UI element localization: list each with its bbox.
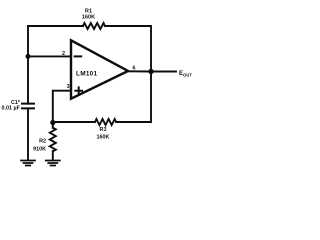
node (output junction) bbox=[148, 69, 153, 74]
wire (output to EOUT) bbox=[151, 71, 176, 73]
svg-text:0.01 µF: 0.01 µF bbox=[2, 106, 21, 112]
svg-text:2: 2 bbox=[62, 51, 65, 57]
wire (to pin 2) bbox=[28, 55, 71, 57]
wire (junction to R3) bbox=[53, 121, 95, 123]
inverting input marker (minus) bbox=[75, 55, 82, 57]
wire (R3 to output rail) bbox=[116, 72, 151, 123]
wire (pin 3 to R2/R3 junction) bbox=[53, 91, 71, 122]
wire (top feedback, left of R1) bbox=[28, 25, 83, 27]
svg-text:R2: R2 bbox=[39, 139, 46, 145]
wire (op-amp output) bbox=[128, 70, 151, 72]
wire (capacitor to ground) bbox=[27, 108, 29, 160]
svg-text:160K: 160K bbox=[97, 134, 110, 140]
node (R2/R3 junction) bbox=[50, 120, 55, 125]
node (inverting input junction) bbox=[26, 54, 31, 59]
svg-text:910K: 910K bbox=[33, 147, 46, 153]
svg-text:EOUT: EOUT bbox=[179, 71, 192, 77]
resistor R1 bbox=[83, 23, 105, 29]
svg-text:160K: 160K bbox=[82, 15, 95, 21]
wire (R2 to ground) bbox=[52, 151, 54, 160]
svg-text:3: 3 bbox=[67, 84, 70, 90]
wire (left rail from top corner down to capacitor) bbox=[27, 26, 29, 103]
ground (C1) bbox=[21, 161, 35, 166]
wire (top feedback, right of R1, down to output node) bbox=[105, 26, 151, 72]
resistor R2 bbox=[50, 128, 56, 151]
wire (R2 top lead) bbox=[52, 122, 54, 128]
svg-text:LM101: LM101 bbox=[76, 71, 98, 78]
resistor R3 bbox=[95, 119, 116, 125]
op-amp U1 bbox=[71, 40, 128, 98]
non-inverting input marker (plus) bbox=[75, 87, 82, 94]
capacitor C1 bbox=[22, 104, 34, 109]
svg-text:R3: R3 bbox=[100, 127, 107, 133]
ground (R2) bbox=[46, 161, 60, 166]
